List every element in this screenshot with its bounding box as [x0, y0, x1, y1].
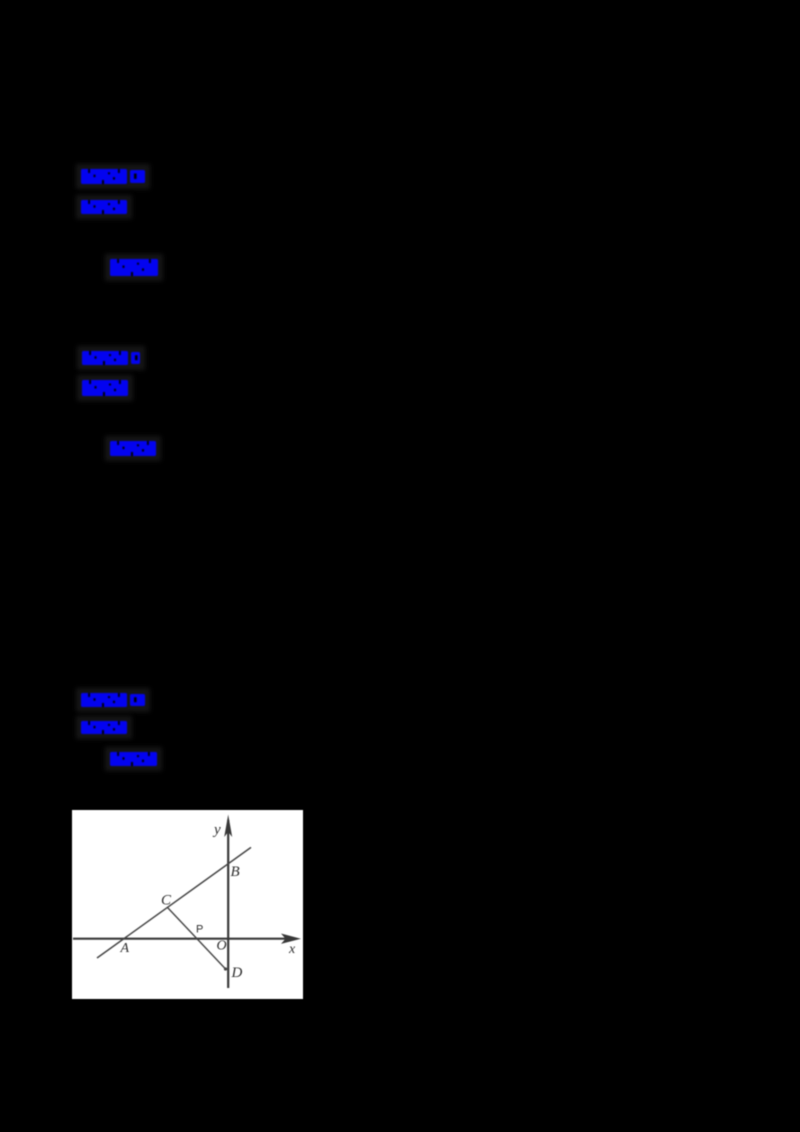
jpeg halo for answer label 【答案】	[77, 346, 145, 370]
jpeg halo for analysis label 【分析】	[76, 716, 132, 739]
segment CD	[168, 908, 227, 971]
jpeg halo for analysis label 【分析】	[76, 195, 132, 219]
jpeg halo for answer label 【答案】	[76, 688, 150, 712]
jpeg halo for answer label 【答案】	[76, 164, 150, 189]
line AB	[97, 847, 251, 958]
y-axis arrowhead	[224, 815, 232, 838]
analysis label 【分析】 (blue)	[81, 721, 127, 734]
jpeg halo for analysis label 【分析】	[77, 375, 133, 401]
x-axis arrowhead	[281, 934, 301, 944]
svg-text:y: y	[212, 822, 221, 838]
jpeg halo for detail label 【详解】	[105, 436, 161, 461]
svg-text:D: D	[231, 965, 243, 981]
svg-text:B: B	[231, 864, 240, 880]
y-axis	[227, 820, 229, 988]
diagram figure: white panel with coordinate axes, line AB and segment CD	[72, 810, 303, 999]
svg-text:P: P	[196, 924, 203, 936]
dot at end of segment near D	[224, 967, 227, 970]
svg-text:x: x	[288, 942, 296, 957]
jpeg halo for detail label 【详解】	[105, 254, 163, 281]
svg-text:C: C	[161, 893, 172, 909]
jpeg halo for detail label 【详解】	[105, 747, 162, 771]
svg-text:O: O	[217, 939, 227, 954]
analysis label 【分析】 (blue)	[81, 200, 127, 214]
answer label 【答案】 (blue)	[82, 351, 140, 365]
detail label 【详解】 (blue)	[110, 259, 158, 276]
detail label 【详解】 (blue)	[110, 752, 157, 766]
x-axis	[73, 938, 288, 940]
answer label 【答案】 (blue)	[81, 169, 145, 184]
answer label 【答案】 (blue)	[81, 693, 145, 707]
detail label 【详解】 (blue)	[110, 441, 156, 456]
svg-text:A: A	[120, 941, 130, 956]
analysis label 【分析】 (blue)	[82, 380, 128, 396]
